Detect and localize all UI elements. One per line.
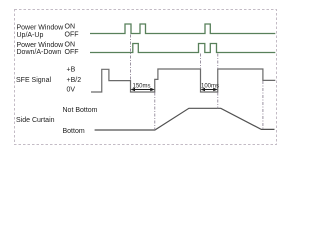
node: dash-dot reference line D4 lower (x=217.75) (217, 93, 219, 109)
svg-text:150ms: 150ms (133, 83, 151, 89)
wire: Power Window Down/A-Down waveform (pulses B1 B2 B3) (90, 44, 275, 53)
wire: Power Window Up/A-Up waveform (pulses A1 A2 A3) (90, 24, 275, 34)
svg-text:Not Bottom: Not Bottom (63, 107, 98, 114)
dimension arrow: 100ms span (201, 88, 218, 92)
svg-text:SFE Signal: SFE Signal (16, 77, 51, 84)
wire: Side Curtain waveform (95, 108, 275, 130)
node: dash-dot reference line D1 (x=130.5) (130, 35, 132, 81)
svg-text:Bottom: Bottom (63, 128, 85, 135)
svg-text:0V: 0V (67, 86, 76, 93)
svg-text:Side Curtain: Side Curtain (16, 117, 55, 124)
node: dash-dot reference line D2 (x=154.75) (154, 93, 156, 130)
dashed outer frame (15, 10, 277, 145)
svg-text:ON: ON (65, 41, 76, 48)
svg-text:OFF: OFF (65, 49, 79, 56)
svg-text:Power Window: Power Window (17, 42, 65, 49)
dimension arrow: 150ms span (131, 88, 155, 92)
svg-text:OFF: OFF (65, 32, 79, 39)
node: dash-dot reference line D3 (x=200.5) (200, 54, 202, 70)
label: Power Window Up/A-Up (17, 25, 65, 39)
node: dash-dot reference line D4 upper (x=217.75) (217, 54, 219, 70)
svg-text:100ms: 100ms (201, 83, 219, 89)
svg-text:Up/A-Up: Up/A-Up (17, 32, 44, 39)
svg-text:+B: +B (67, 67, 76, 74)
node: dash-dot reference line D5 (x=262.9) (262, 81, 264, 129)
label: Power Window Down/A-Down (17, 42, 65, 56)
svg-text:+B/2: +B/2 (67, 77, 82, 84)
svg-text:Down/A-Down: Down/A-Down (17, 49, 62, 56)
wire: SFE Signal waveform (91, 69, 275, 92)
svg-text:ON: ON (65, 23, 76, 30)
svg-text:Power Window: Power Window (17, 25, 65, 32)
